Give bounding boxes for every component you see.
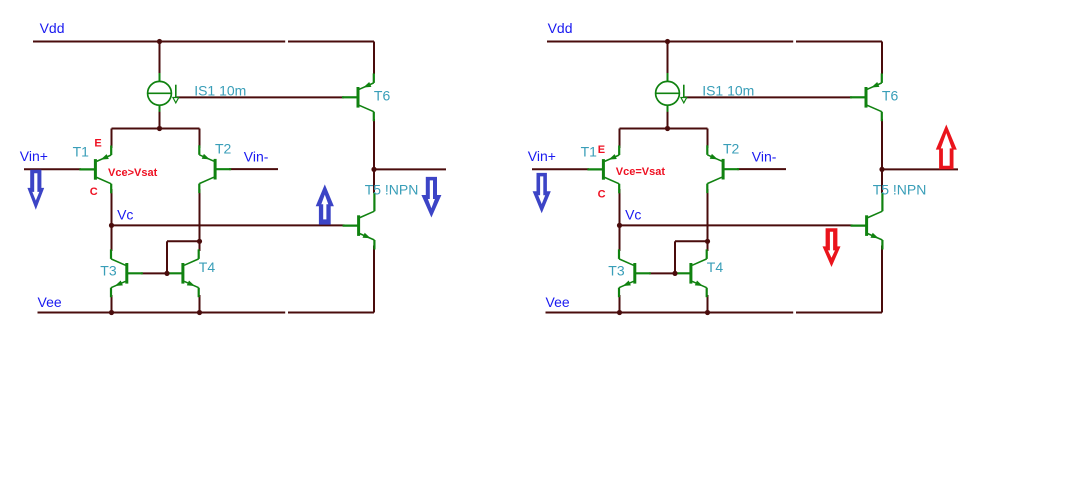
svg-text:Vc: Vc <box>117 207 133 223</box>
svg-text:Vce>Vsat: Vce>Vsat <box>108 167 158 179</box>
label T6 (a) <box>374 88 391 104</box>
wire mirror base drop (a) <box>166 241 168 273</box>
wire IS1 to T6 base (b) <box>685 96 852 98</box>
wire IS1 to T6 base (a) <box>177 96 344 98</box>
arrow base current up (left ckt) <box>316 184 334 224</box>
junction Vdd-IS1 (a) <box>157 39 162 44</box>
junction output node (b) <box>879 167 884 172</box>
junction T2/T4 collectors (b) <box>705 239 710 244</box>
svg-text:T4: T4 <box>707 259 724 275</box>
wire T5 emitter to Vee (b) <box>881 246 883 313</box>
wire output to T5 collector (a) <box>373 169 375 193</box>
svg-text:C: C <box>598 189 606 201</box>
transistor T4 (b) <box>675 249 707 297</box>
net label Vee (a) <box>38 294 62 310</box>
wire Vdd rail left segment (a) <box>33 41 285 43</box>
label T6 (b) <box>882 88 899 104</box>
arrow output current up (right ckt) <box>936 125 957 170</box>
wire T2 collector to mirror (b) <box>675 240 708 242</box>
arrow output current down (left ckt) <box>421 177 441 218</box>
transistor T1 (b) <box>587 146 619 194</box>
svg-text:Vee: Vee <box>38 294 62 310</box>
junction mirror bases (b) <box>672 271 677 276</box>
wire Vdd to T6 emitter (a) <box>373 42 375 75</box>
junction T4 emitter Vee (a) <box>197 310 202 315</box>
svg-text:Vin+: Vin+ <box>20 148 48 164</box>
wire T4 emitter to Vee (b) <box>707 295 709 313</box>
svg-text:E: E <box>94 137 101 149</box>
wire T6 collector to output (b) <box>881 119 883 169</box>
junction Vc node (b) <box>617 223 622 228</box>
label T4 (b) <box>707 259 724 275</box>
svg-text:C: C <box>90 186 98 198</box>
wire T6 collector to output (a) <box>373 119 375 169</box>
wire IS1 to emitter bus (a) <box>159 111 161 129</box>
svg-text:IS1 10m: IS1 10m <box>702 83 754 99</box>
svg-text:Vdd: Vdd <box>40 20 65 36</box>
transistor T2 (a) <box>199 145 231 193</box>
wire Vee rail left segment (b) <box>546 312 794 314</box>
label T4 (a) <box>199 259 216 275</box>
wire T3 emitter to Vee (a) <box>111 295 113 313</box>
label T3 (a) <box>100 262 117 278</box>
wire Vdd to IS1 (b) <box>667 42 669 75</box>
wire T2 collector down (b) <box>707 189 709 241</box>
wire T1 collector to Vc (b) <box>619 189 621 225</box>
svg-text:T2: T2 <box>215 140 232 156</box>
wire Vdd rail left segment (b) <box>547 41 793 43</box>
wire T3-T4 base bus (b) <box>649 272 676 274</box>
wire Vee rail left segment (a) <box>38 312 286 314</box>
label T1 (a) <box>73 144 90 160</box>
label T1 (b) <box>581 144 598 160</box>
net label Vdd (b) <box>548 20 573 36</box>
label T2 (a) <box>215 140 232 156</box>
transistor T1 (a) <box>79 146 111 194</box>
wire Vdd to IS1 (a) <box>159 42 161 75</box>
label T3 (b) <box>608 262 625 278</box>
net label Vin- (b) <box>752 149 777 165</box>
transistor T4 (a) <box>167 249 199 297</box>
wire Vdd rail right segment (a) <box>288 41 374 43</box>
junction output node (a) <box>371 167 376 172</box>
svg-text:Vee: Vee <box>546 294 570 310</box>
annotation Vce>Vsat (a) <box>108 167 158 179</box>
wire bus to T1 emitter (b) <box>619 129 621 149</box>
wire bus to T2 emitter (b) <box>707 129 709 149</box>
svg-text:T5 !NPN: T5 !NPN <box>873 182 927 198</box>
junction T3 emitter Vee (a) <box>109 310 114 315</box>
wire output node (b) <box>882 168 958 170</box>
junction T2/T4 collectors (a) <box>197 239 202 244</box>
junction mirror bases (a) <box>164 271 169 276</box>
junction emitter bus (a) <box>157 126 162 131</box>
svg-text:Vin-: Vin- <box>244 149 269 165</box>
annotation Vce=Vsat (b) <box>616 166 666 178</box>
svg-text:T5 !NPN: T5 !NPN <box>365 182 419 198</box>
svg-text:Vin+: Vin+ <box>528 148 556 164</box>
annotation E (a) <box>94 137 101 149</box>
svg-text:T4: T4 <box>199 259 216 275</box>
svg-text:T1: T1 <box>73 144 90 160</box>
label T5 !NPN (a) <box>365 182 419 198</box>
arrow Vin+ current down (left ckt) <box>27 170 44 210</box>
svg-text:Vce=Vsat: Vce=Vsat <box>616 166 666 178</box>
wire T2 collector down (a) <box>199 189 201 241</box>
wire Vc to T3 collector (a) <box>111 225 113 251</box>
wire T2 collector to mirror (a) <box>167 240 200 242</box>
wire Vdd to T6 emitter (b) <box>881 42 883 75</box>
wire Vin- input (b) <box>737 168 786 170</box>
wire Vc to T3 collector (b) <box>619 225 621 251</box>
wire tail emitter bus (a) <box>112 128 200 130</box>
svg-text:T3: T3 <box>100 262 117 278</box>
junction T4 emitter Vee (b) <box>705 310 710 315</box>
wire output to T5 collector (b) <box>881 169 883 193</box>
net label Vin- (a) <box>244 149 269 165</box>
label IS1 10m (b) <box>702 83 754 99</box>
wire node to T4 collector (a) <box>199 241 201 251</box>
net label Vdd (a) <box>40 20 65 36</box>
transistor T3 (a) <box>111 249 143 297</box>
svg-text:E: E <box>598 144 605 156</box>
net label Vee (b) <box>546 294 570 310</box>
net label Vc (b) <box>625 207 641 223</box>
svg-text:IS1 10m: IS1 10m <box>194 83 246 99</box>
net label Vc (a) <box>117 207 133 223</box>
wire Vdd rail right segment (b) <box>796 41 882 43</box>
transistor T5 (a) <box>343 193 375 250</box>
wire T5 emitter to Vee (a) <box>373 246 375 313</box>
svg-text:Vc: Vc <box>625 207 641 223</box>
svg-text:T3: T3 <box>608 262 625 278</box>
junction Vc node (a) <box>109 223 114 228</box>
transistor T6 (a) <box>342 73 374 121</box>
wire T3 emitter to Vee (b) <box>619 295 621 313</box>
junction T3 emitter Vee (b) <box>617 310 622 315</box>
wire T1 collector to Vc (a) <box>111 189 113 225</box>
transistor T5 (b) <box>851 193 883 250</box>
wire Vin- input (a) <box>229 168 278 170</box>
net label Vin+ (b) <box>528 148 556 164</box>
label T2 (b) <box>723 140 740 156</box>
wire bus to T1 emitter (a) <box>111 129 113 149</box>
wire mirror base drop (b) <box>674 241 676 273</box>
annotation E (b) <box>598 144 605 156</box>
wire T3-T4 base bus (a) <box>141 272 168 274</box>
wire T4 emitter to Vee (a) <box>199 295 201 313</box>
svg-text:T6: T6 <box>374 88 391 104</box>
svg-text:Vin-: Vin- <box>752 149 777 165</box>
net label Vin+ (a) <box>20 148 48 164</box>
wire Vee rail right segment (a) <box>288 312 374 314</box>
wire Vin+ input (a) <box>24 168 81 170</box>
svg-text:T6: T6 <box>882 88 899 104</box>
label IS1 10m (a) <box>194 83 246 99</box>
svg-text:Vdd: Vdd <box>548 20 573 36</box>
wire output node (a) <box>374 168 446 170</box>
svg-text:T1: T1 <box>581 144 598 160</box>
wire node to T4 collector (b) <box>707 241 709 251</box>
annotation C (b) <box>598 189 606 201</box>
transistor T2 (b) <box>707 145 739 193</box>
wire Vc node to T5 base (a) <box>112 224 345 226</box>
transistor T3 (b) <box>619 249 651 297</box>
current source IS1 (b) <box>656 73 687 112</box>
label T5 !NPN (b) <box>873 182 927 198</box>
wire tail emitter bus (b) <box>620 128 708 130</box>
junction emitter bus (b) <box>665 126 670 131</box>
wire bus to T2 emitter (a) <box>199 129 201 149</box>
wire Vin+ input (b) <box>532 168 589 170</box>
annotation C (a) <box>90 186 98 198</box>
arrow base current down (right ckt) <box>823 228 841 267</box>
svg-text:T2: T2 <box>723 140 740 156</box>
arrow Vin+ current down (right ckt) <box>533 173 551 213</box>
wire Vc node to T5 base (b) <box>620 224 853 226</box>
junction Vdd-IS1 (b) <box>665 39 670 44</box>
transistor T6 (b) <box>850 73 882 121</box>
wire Vee rail right segment (b) <box>796 312 882 314</box>
wire IS1 to emitter bus (b) <box>667 111 669 129</box>
current source IS1 (a) <box>148 73 179 112</box>
